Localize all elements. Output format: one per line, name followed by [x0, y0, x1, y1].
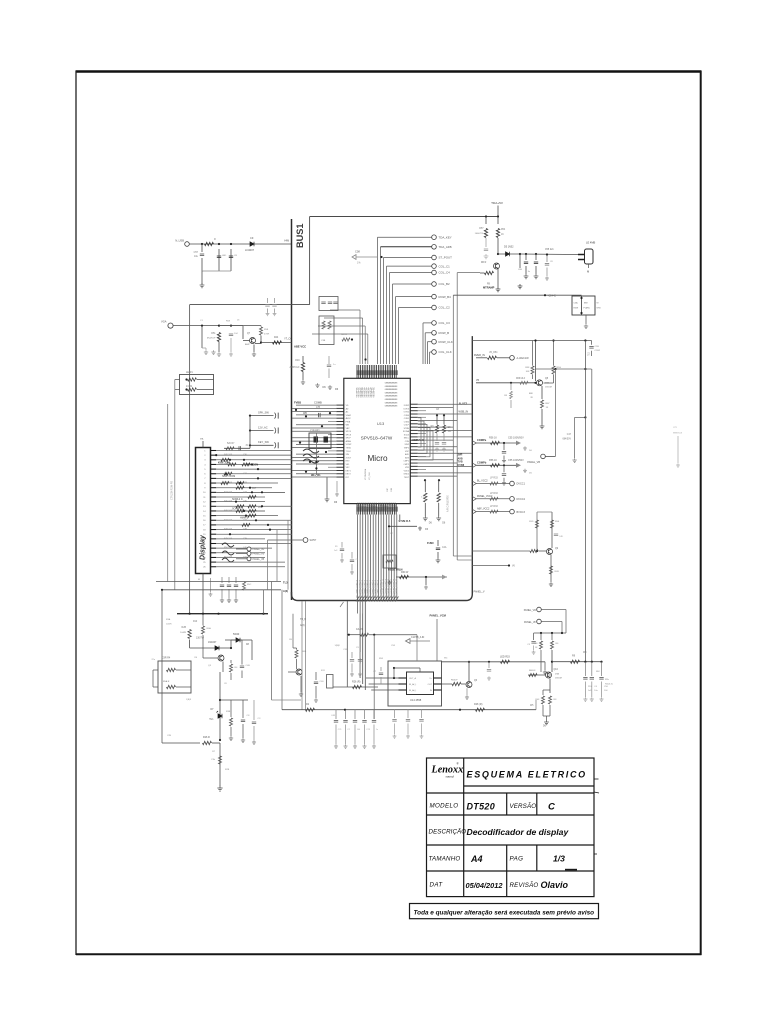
svg-text:CMP2: CMP2	[403, 464, 409, 466]
wire	[175, 389, 180, 391]
pin tick	[399, 683, 407, 685]
svg-text:R63LF: R63LF	[451, 680, 458, 682]
resistor R54	[496, 229, 499, 238]
resistor R44	[273, 341, 282, 344]
wire rail	[534, 632, 566, 634]
wire	[210, 657, 218, 659]
svg-text:DVD3: DVD3	[404, 408, 410, 410]
wire chain	[424, 503, 426, 516]
resistor display row	[236, 505, 244, 508]
wire vertical	[174, 380, 176, 590]
resistor display row	[242, 523, 250, 526]
ground	[350, 570, 354, 574]
capacitor	[239, 446, 241, 450]
ground chain	[423, 516, 428, 521]
ground	[442, 448, 446, 452]
connector Display outline	[196, 448, 211, 574]
connector pad TDA_AFB	[432, 245, 437, 250]
svg-text:R57: R57	[252, 488, 257, 490]
svg-text:R5W: R5W	[574, 308, 579, 310]
component box	[383, 555, 396, 568]
svg-text:CSN: CSN	[405, 441, 410, 443]
junction	[315, 467, 317, 469]
wire	[541, 621, 562, 623]
svg-text:FUNC: FUNC	[427, 542, 434, 545]
svg-text:R60 W: R60 W	[401, 571, 409, 574]
capacitor C57	[200, 254, 204, 256]
capacitor	[379, 673, 383, 675]
svg-text:10K: 10K	[526, 371, 530, 373]
svg-text:DVCC1: DVCC1	[517, 483, 526, 486]
wire	[302, 356, 304, 363]
wire	[201, 244, 203, 252]
connector Display pin numbers	[203, 450, 206, 568]
ground	[534, 274, 539, 279]
svg-text:CN–C: CN–C	[549, 294, 556, 298]
connector pad TDA_KEY	[432, 235, 437, 240]
IC U13 right pins	[410, 404, 418, 476]
svg-text:1815M: 1815M	[545, 387, 552, 389]
wire bundle left	[324, 317, 363, 319]
wire row to Qa b	[472, 565, 509, 567]
svg-text:SEG9/P9A: SEG9/P9A	[373, 387, 376, 398]
resistor	[226, 447, 234, 450]
svg-text:VDP: VDP	[405, 451, 410, 453]
svg-text:COM15B: COM15B	[387, 502, 389, 511]
wire cap chain	[584, 662, 586, 676]
Lenoxx logo	[431, 762, 464, 779]
svg-text:R26 (R): R26 (R)	[352, 681, 361, 684]
section box 4558	[388, 661, 442, 706]
connector pad COL_C3	[432, 321, 437, 326]
wire	[359, 652, 361, 658]
wire net vertical COL_C4	[389, 273, 391, 365]
svg-text:OUT: OUT	[428, 684, 433, 686]
transistor Q2	[218, 655, 224, 661]
wires bus to IC left	[292, 405, 336, 477]
junction	[217, 613, 219, 615]
resistor J4_R1	[188, 388, 197, 391]
junction	[230, 243, 232, 245]
resistor display row	[228, 463, 236, 466]
svg-text:COMPa: COMPa	[477, 438, 487, 442]
wire row to Qa	[472, 550, 530, 552]
svg-text:C4A: C4A	[442, 546, 447, 549]
svg-text:COMPb: COMPb	[477, 461, 487, 465]
wire net vertical COL_C2	[398, 308, 400, 365]
svg-text:2SB: 2SB	[555, 674, 560, 676]
ground	[543, 670, 547, 674]
ground Qa	[549, 582, 553, 586]
wire COMPa	[476, 442, 516, 444]
wire	[407, 724, 409, 735]
wire long vertical	[591, 369, 593, 662]
junction	[544, 294, 546, 296]
edge chevron	[472, 497, 476, 502]
wire cap drop	[354, 725, 356, 745]
junction	[503, 464, 505, 466]
svg-text:TDA_KEY: TDA_KEY	[439, 235, 452, 239]
junction	[309, 461, 311, 463]
svg-text:PANEL_VS: PANEL_VS	[253, 553, 265, 556]
wire	[347, 634, 360, 636]
wire net vertical TDA_AFB	[380, 247, 382, 364]
capacitor	[328, 302, 332, 304]
wire	[535, 266, 537, 274]
svg-text:1uF: 1uF	[448, 431, 453, 433]
wire cap drop	[354, 710, 356, 719]
svg-text:DESCRIÇÃO: DESCRIÇÃO	[429, 829, 467, 836]
capacitor rail	[353, 721, 357, 723]
svg-text:1/3: 1/3	[553, 854, 565, 864]
wire	[197, 379, 214, 381]
ground rail	[362, 744, 366, 748]
svg-text:ROW_CLK: ROW_CLK	[439, 340, 453, 344]
junction	[218, 243, 220, 245]
svg-text:RM: RM	[596, 671, 600, 673]
capacitor	[234, 585, 238, 587]
svg-text:520 R7: 520 R7	[227, 443, 235, 445]
wire	[241, 640, 243, 660]
resistor display row	[221, 482, 229, 485]
svg-text:RVER_IN: RVER_IN	[474, 354, 485, 357]
svg-text:DVB2: DVB2	[404, 405, 410, 407]
junction	[425, 576, 427, 578]
svg-text:COM4B: COM4B	[364, 502, 366, 510]
svg-text:COL_CLK: COL_CLK	[439, 350, 452, 354]
ground	[572, 458, 576, 462]
svg-text:A(3): A(3)	[283, 589, 288, 593]
resistor display row	[248, 509, 256, 512]
wire chain	[438, 480, 440, 492]
svg-text:R2B: R2B	[182, 627, 187, 629]
wire	[341, 542, 343, 548]
resistor	[488, 356, 497, 359]
edge chevron	[472, 441, 476, 446]
wire net vertical COL_C1	[386, 266, 388, 364]
wire COMPb	[476, 464, 516, 466]
svg-text:C9: C9	[250, 236, 254, 240]
pin tick right	[434, 689, 442, 691]
wire pin stub top	[202, 441, 204, 448]
ground	[200, 283, 205, 288]
wire vertical pair a	[452, 295, 454, 556]
wire	[201, 258, 203, 271]
svg-text:B_VC2: B_VC2	[459, 403, 468, 406]
svg-text:FVBB: FVBB	[294, 401, 301, 405]
wire SW row	[268, 539, 303, 541]
net arrow COMPa	[516, 441, 521, 446]
svg-text:TDA+5V: TDA+5V	[491, 201, 504, 205]
svg-text:M: M	[198, 579, 200, 581]
connector PANEL_VS	[247, 552, 251, 556]
svg-text:COM11B: COM11B	[379, 502, 381, 511]
ground	[418, 526, 422, 530]
wire rail B	[162, 589, 281, 591]
svg-text:CXB0: CXB0	[404, 415, 410, 417]
pin tick	[399, 689, 407, 691]
wire	[436, 415, 438, 424]
resistor display row	[236, 509, 244, 512]
ground	[229, 736, 233, 740]
wire bundle up	[359, 310, 361, 364]
junction	[249, 429, 251, 431]
svg-text:STBN: STBN	[404, 428, 410, 430]
crystal X1 4MHz box	[585, 249, 594, 264]
junction	[161, 589, 163, 591]
net arrow C08	[352, 255, 378, 260]
component box LE/J4	[180, 375, 214, 395]
wire	[488, 662, 490, 668]
wire	[677, 436, 679, 463]
svg-text:U13: U13	[377, 421, 385, 426]
capacitor	[419, 720, 423, 722]
junction	[260, 341, 262, 343]
IC U13 top-left pin names	[356, 387, 376, 398]
ground	[465, 695, 469, 699]
wire rail 687	[333, 686, 378, 688]
wire cap drop	[345, 710, 347, 719]
svg-text:C08: C08	[355, 250, 360, 254]
wire	[510, 400, 512, 408]
svg-text:J4 R1: J4 R1	[186, 385, 193, 388]
resistor R51	[217, 333, 220, 342]
wire opamp in	[369, 683, 407, 685]
svg-text:R54: R54	[501, 229, 506, 231]
wire	[359, 664, 361, 673]
svg-text:1(B)F: 1(B)F	[335, 645, 341, 647]
inductor curls	[222, 543, 234, 562]
wire	[296, 648, 298, 650]
wire left box edge	[189, 305, 191, 614]
wire rail	[536, 368, 592, 370]
wire vertical	[315, 433, 317, 475]
wire	[255, 343, 261, 345]
speaker arc KEY_SW	[275, 442, 276, 448]
wire bundle left	[330, 309, 360, 311]
junction	[295, 409, 297, 411]
speaker arc 12V_AC	[275, 428, 276, 434]
svg-text:PANEL_VD: PANEL_VD	[524, 609, 537, 612]
wire	[575, 416, 586, 418]
svg-text:C10TB_A IN: C10TB_A IN	[411, 636, 425, 639]
resistor	[540, 400, 543, 408]
junction	[267, 524, 269, 526]
wire	[442, 683, 453, 685]
svg-text:LP R33: LP R33	[490, 506, 498, 508]
wire branch	[553, 341, 555, 366]
wire	[551, 633, 553, 640]
wire	[309, 217, 311, 305]
resistor	[167, 685, 176, 688]
svg-text:SORL2 C: SORL2 C	[232, 498, 243, 501]
ground	[266, 312, 270, 316]
junction	[552, 339, 554, 341]
wire rail	[472, 340, 591, 342]
pin tick	[399, 677, 407, 679]
IC U13 bottom pins	[357, 504, 396, 515]
svg-text:PANEL_VCM: PANEL_VCM	[430, 614, 447, 618]
wire	[230, 700, 232, 717]
svg-text:TAMANHO: TAMANHO	[429, 856, 461, 863]
junction	[202, 613, 204, 615]
svg-text:C57: C57	[194, 251, 199, 254]
svg-text:9R+_R1: 9R+_R1	[311, 473, 321, 477]
resistor	[520, 381, 528, 384]
junction	[584, 416, 586, 418]
svg-text:CXLP: CXLP	[404, 425, 410, 427]
svg-text:684/50V: 684/50V	[562, 439, 571, 441]
svg-text:PANEL_VF: PANEL_VF	[524, 621, 537, 624]
wire	[219, 743, 221, 786]
svg-text:COM12B: COM12B	[381, 502, 383, 511]
wire cap chain	[591, 682, 593, 698]
wire	[443, 415, 445, 424]
svg-text:C5A: C5A	[574, 302, 579, 305]
svg-text:R3A: R3A	[166, 618, 171, 621]
ground	[544, 720, 549, 725]
bus BUS1 line	[291, 219, 293, 600]
capacitor C3	[229, 256, 233, 258]
resistor	[328, 321, 331, 329]
svg-text:sound: sound	[446, 775, 454, 779]
svg-text:SELC: SELC	[404, 438, 410, 440]
wire bundle left	[312, 333, 368, 335]
wire cap drop	[364, 725, 366, 745]
junction	[225, 473, 227, 475]
capacitor	[358, 660, 362, 662]
diode D4 1N4007	[215, 646, 219, 650]
junction	[525, 253, 527, 255]
svg-text:C2P: C2P	[387, 487, 389, 492]
svg-text:R: R	[214, 238, 216, 241]
svg-text:U14 4558: U14 4558	[410, 698, 422, 702]
wire	[549, 705, 551, 716]
resistor	[549, 566, 552, 574]
ground	[204, 350, 208, 354]
wire bundle up	[362, 318, 364, 364]
junction	[325, 451, 327, 453]
capacitor	[333, 302, 337, 304]
svg-text:TEST: TEST	[404, 477, 410, 479]
svg-text:05/04/2012: 05/04/2012	[466, 881, 504, 890]
IC U13 left pins	[336, 405, 344, 477]
resistor	[550, 641, 553, 649]
capacitor	[229, 334, 233, 336]
wire net vertical ST_POUT	[383, 258, 385, 365]
wire long vertical	[584, 341, 586, 662]
junction	[348, 634, 350, 636]
junction	[344, 709, 346, 711]
svg-text:XOUT: XOUT	[346, 457, 352, 459]
capacitor	[252, 722, 256, 724]
wire	[202, 645, 204, 658]
transistor Q6	[466, 682, 472, 688]
wire pin stub bottom	[202, 574, 204, 614]
capacitor COMPb	[502, 474, 506, 476]
resistor R60	[400, 575, 409, 578]
svg-text:C2Y: C2Y	[673, 427, 678, 429]
svg-text:WW.R.LN: WW.R.LN	[673, 433, 683, 435]
wire branch	[544, 382, 554, 384]
wire	[224, 447, 250, 449]
wire rail 710	[282, 709, 536, 711]
wire	[369, 634, 417, 636]
resistor DVCC1	[490, 482, 498, 485]
capacitor rail	[362, 721, 366, 723]
svg-text:KEY2: KEY2	[346, 474, 352, 476]
svg-text:R44: R44	[274, 337, 279, 339]
resistor R1	[205, 242, 214, 245]
resistor display row	[242, 463, 250, 466]
wire gnd stub	[201, 271, 203, 284]
wire cap chain	[601, 662, 603, 676]
svg-text:LED R33: LED R33	[500, 656, 510, 659]
ground	[340, 558, 344, 562]
wire	[536, 512, 538, 551]
wire	[519, 254, 521, 268]
wires Display to bus	[216, 451, 292, 567]
component box dark cluster	[309, 433, 331, 449]
capacitor	[272, 305, 276, 307]
svg-text:TB_B: TB_B	[300, 618, 306, 621]
svg-text:COL_C1: COL_C1	[439, 264, 451, 268]
wire	[591, 351, 593, 356]
resistor	[541, 696, 544, 704]
junction	[485, 215, 487, 217]
resistor	[548, 696, 551, 704]
svg-text:130/7W: 130/7W	[196, 638, 205, 640]
wire	[545, 455, 555, 457]
wire net vertical COL_CLK	[429, 352, 431, 364]
capacitor	[589, 347, 593, 349]
resistor	[485, 271, 494, 274]
wire	[537, 511, 552, 513]
svg-text:TSTA: TSTA	[346, 447, 352, 450]
svg-text:R60LF: R60LF	[529, 670, 536, 672]
wire	[351, 552, 353, 559]
wire	[315, 686, 317, 698]
svg-text:R5B: R5B	[264, 329, 269, 331]
wire drop	[421, 710, 423, 718]
resistor	[531, 366, 534, 374]
svg-text:1(B)F: 1(B)F	[186, 699, 192, 701]
svg-text:D5 1N52: D5 1N52	[504, 246, 514, 249]
svg-text:COM17B: COM17B	[392, 502, 394, 511]
svg-text:1u: 1u	[376, 729, 378, 731]
wire	[533, 646, 535, 651]
connector PANEL_VD	[537, 607, 542, 612]
capacitor	[220, 585, 224, 587]
wire	[201, 326, 203, 348]
junction	[185, 388, 187, 390]
net arrow COMPb	[516, 463, 521, 468]
wire	[546, 268, 548, 277]
junction	[546, 253, 548, 255]
wire	[476, 382, 536, 384]
capacitor	[240, 666, 244, 668]
svg-text:R5D: R5D	[529, 521, 534, 523]
svg-text:AVD: AVD	[405, 453, 410, 456]
wire	[588, 264, 590, 268]
svg-text:R28 (R): R28 (R)	[474, 703, 483, 706]
junction	[551, 632, 553, 634]
IC U13 bottom pin band	[356, 507, 398, 512]
ground rail	[372, 744, 376, 748]
svg-text:AVS: AVS	[405, 456, 410, 459]
wire	[525, 266, 527, 274]
wire cap stub	[267, 309, 269, 313]
